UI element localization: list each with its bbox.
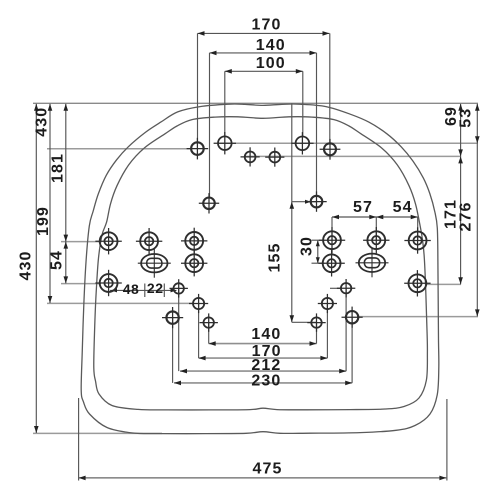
svg-text:53: 53 (457, 108, 474, 128)
svg-text:57: 57 (353, 199, 373, 216)
svg-text:212: 212 (251, 357, 281, 374)
svg-text:54: 54 (393, 199, 413, 216)
svg-text:140: 140 (251, 326, 281, 343)
svg-text:430: 430 (18, 251, 35, 281)
svg-text:140: 140 (256, 37, 286, 54)
svg-text:100: 100 (256, 55, 286, 72)
svg-text:430: 430 (34, 107, 51, 137)
svg-text:199: 199 (35, 206, 52, 236)
svg-text:48: 48 (123, 281, 140, 297)
svg-text:475: 475 (253, 461, 283, 478)
svg-text:22: 22 (147, 280, 164, 296)
svg-text:155: 155 (266, 243, 283, 273)
svg-text:170: 170 (252, 16, 282, 33)
svg-text:230: 230 (251, 373, 281, 390)
svg-text:30: 30 (299, 236, 316, 256)
svg-text:181: 181 (50, 153, 67, 183)
svg-text:54: 54 (49, 250, 66, 270)
svg-text:276: 276 (457, 202, 474, 232)
